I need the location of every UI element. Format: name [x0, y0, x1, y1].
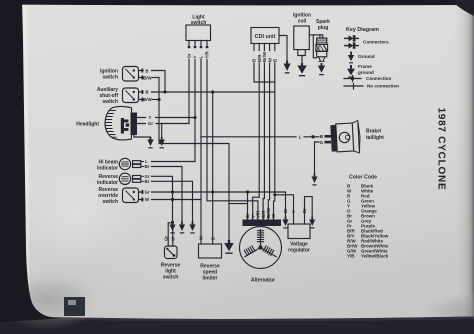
svg-text:Y: Y: [193, 56, 198, 59]
svg-text:1987 CYCLONE: 1987 CYCLONE: [436, 108, 447, 191]
light switch pin stubs: [189, 41, 207, 47]
ground under Gr bus end: [282, 217, 288, 229]
ground branch vertical: [172, 192, 174, 223]
regulator pin names: [291, 208, 307, 213]
speed limiter pin names: [199, 235, 216, 240]
junction W wire crossing: [171, 198, 174, 201]
ignition switch SW2 body: [123, 67, 139, 82]
svg-text:indicator: indicator: [97, 180, 118, 186]
svg-text:B/W: B/W: [143, 97, 152, 102]
taillight wire names: [299, 134, 324, 145]
plug side strap wire: [313, 35, 316, 58]
spur pin name: [283, 208, 288, 213]
color code rows: [347, 184, 389, 259]
wire L to brake light: [201, 136, 319, 138]
reverse override switch SW4 body: [123, 188, 139, 203]
wire Br reverse indicator to ground: [152, 181, 193, 222]
right edge shadow: [452, 0, 474, 334]
reverse light switch lever: [166, 248, 175, 257]
ground arrow mid low: [179, 222, 185, 234]
reverse indicator wire names: [144, 174, 149, 184]
svg-text:Connectors: Connectors: [363, 40, 389, 45]
svg-text:Yellow/Black: Yellow/Black: [361, 254, 389, 259]
wire Br hi beam to ground: [152, 167, 183, 223]
aux switch stubs: [139, 92, 144, 100]
svg-text:coil: coil: [298, 19, 307, 25]
light switch SW1 body: [186, 25, 211, 41]
key ground symbol: [348, 52, 354, 64]
svg-text:Connection: Connection: [366, 76, 391, 81]
svg-text:Key Diagram: Key Diagram: [346, 27, 379, 33]
wire coil to spark plug: [309, 34, 321, 36]
wire branch to reverse speed limiter B pin: [212, 92, 214, 244]
wire Br pin vertical: [247, 192, 249, 221]
auxiliary shut-off switch SW3 body: [123, 88, 139, 103]
junction on B bus: [211, 90, 214, 93]
svg-text:switch: switch: [102, 99, 118, 105]
svg-text:L: L: [199, 56, 204, 59]
reverse light switch pin names: [163, 236, 175, 241]
svg-text:Headlight: Headlight: [76, 122, 99, 128]
key frame ground symbol: [347, 65, 355, 78]
reverse light switch pins: [168, 223, 173, 246]
wire Y/R long vertical from light switch: [207, 60, 258, 220]
aux switch contacts and lever: [133, 91, 135, 101]
svg-text:Br: Br: [145, 164, 150, 169]
brake light lower pin wire: [315, 142, 320, 175]
wire Gr override bus across: [152, 192, 286, 218]
svg-text:indicator: indicator: [97, 166, 118, 172]
wire Gr reverse indicator: [152, 176, 173, 192]
headlight ground wire left: [134, 135, 151, 140]
CDI pin B jumper strap: [254, 63, 275, 82]
svg-text:Y/R: Y/R: [205, 50, 210, 58]
wire B/W vertical down and across to frame ground: [159, 78, 229, 241]
svg-text:Y: Y: [149, 115, 152, 120]
svg-text:switch: switch: [163, 275, 179, 281]
svg-text:ground: ground: [358, 70, 374, 75]
ignition switch stubs: [139, 71, 144, 78]
key no-connection symbol: [344, 84, 363, 90]
override switch contacts and lever: [133, 191, 135, 201]
bottom-right dark corner: [414, 290, 474, 334]
junction B/W: [157, 98, 160, 101]
page left edge highlight: [22, 5, 30, 302]
svg-text:Gr: Gr: [144, 190, 149, 195]
svg-text:Color Code: Color Code: [349, 175, 377, 181]
brake light pin ends: [325, 135, 332, 143]
headlight connector block: [131, 113, 138, 136]
CDI unit U1 body: [251, 28, 279, 44]
light switch pin feet: [188, 46, 209, 48]
CDI wire Br/W to alternator B/R pin: [263, 63, 264, 220]
alternator pin names: [245, 207, 276, 218]
binder tab: [64, 297, 85, 316]
key connectors symbol: [344, 35, 359, 41]
key connection symbol: [344, 76, 361, 82]
aux switch wire names: [143, 90, 152, 103]
taillight flange: [352, 120, 361, 153]
page corner shadow: [0, 270, 100, 330]
svg-text:CDI unit: CDI unit: [255, 34, 276, 40]
svg-text:switch: switch: [191, 20, 207, 26]
alternator pin nubs: [248, 214, 274, 220]
svg-text:L: L: [299, 135, 302, 140]
headlight L1 shell: [105, 106, 132, 140]
alternator G1 stator: [240, 227, 282, 269]
wire B/W aux switch: [153, 99, 160, 101]
ignition coil T1 body: [294, 26, 310, 50]
svg-text:Y/B: Y/B: [347, 254, 355, 259]
svg-text:B: B: [273, 59, 278, 62]
bottom page edge line: [30, 317, 474, 322]
ignition coil bottom stubs: [298, 50, 306, 64]
CDI wire B right vertical to alternator W pin: [274, 63, 275, 220]
reverse light switch SW5 body: [165, 246, 178, 259]
voltage regulator U3 body: [288, 224, 310, 239]
ignition switch wire names: [143, 68, 152, 80]
svg-text:limiter: limiter: [202, 276, 217, 282]
CDI pin stubs: [254, 44, 275, 51]
hi beam indicator connector: [133, 161, 141, 164]
wire L hi beam: [152, 161, 196, 163]
junction B vertical / regulator Y: [273, 193, 276, 196]
svg-text:Gr: Gr: [148, 121, 153, 126]
headlight ground wire right: [161, 124, 163, 140]
page curl highlight: [5, 150, 145, 274]
svg-text:B: B: [320, 134, 323, 139]
svg-text:Alternator: Alternator: [251, 278, 275, 284]
svg-text:plug: plug: [318, 25, 329, 31]
svg-text:G: G: [320, 140, 324, 145]
svg-text:B: B: [211, 237, 216, 240]
svg-text:switch: switch: [102, 199, 118, 205]
light switch pin names: [187, 50, 210, 58]
junction Gr bus / ground branch: [171, 190, 174, 193]
ground below spark plug: [318, 63, 325, 75]
junction at reverse light switch pins: [171, 221, 174, 224]
wire frame-ground link to Br pin: [229, 203, 248, 205]
wire B aux switch bus: [152, 91, 275, 93]
wire B ignition switch: [152, 71, 166, 93]
svg-text:taillight: taillight: [366, 135, 384, 141]
svg-text:Br: Br: [302, 208, 307, 213]
svg-text:switch: switch: [102, 75, 118, 81]
hi beam indicator lamp L2: [119, 158, 130, 169]
ground arrow right low: [189, 222, 195, 234]
headlight bulb element: [121, 118, 129, 134]
svg-text:Gr: Gr: [163, 236, 168, 241]
ground right under headlight: [159, 137, 165, 148]
ground under brake light feed: [311, 174, 317, 186]
override wire names: [144, 190, 149, 203]
alternator connector block: [243, 220, 282, 227]
ground left under headlight: [147, 137, 153, 148]
left dark band: [0, 0, 60, 322]
top dark strip: [0, 0, 474, 5]
ignition switch contacts and lever: [133, 69, 135, 78]
svg-text:Brake/: Brake/: [366, 129, 382, 135]
wire L vertical from light switch: [200, 60, 202, 245]
reverse indicator lamp L3: [119, 173, 130, 184]
svg-text:Br: Br: [145, 179, 150, 184]
top-right dark corner: [455, 0, 474, 16]
big frame ground right of limiter: [224, 240, 234, 254]
svg-text:B: B: [145, 90, 148, 95]
regulator Br pin to ground: [305, 197, 313, 224]
junction ign B / aux B: [163, 90, 166, 93]
wire regulator Y pin up-left to B vertical: [275, 195, 294, 224]
brake/taillight lamp L4: [330, 120, 361, 154]
svg-text:Frame: Frame: [358, 64, 372, 69]
svg-text:Br: Br: [283, 208, 288, 213]
spark plug gap tick: [319, 60, 324, 62]
junction Gr bus / alternator Br: [246, 190, 249, 193]
svg-text:regulator: regulator: [288, 248, 310, 254]
lower-left page shading: [20, 150, 280, 325]
wire Gr from light switch to headlight: [188, 60, 190, 124]
headlight reflector hatching: [105, 111, 116, 138]
svg-text:Ground: Ground: [358, 54, 375, 59]
CDI pin names: [252, 51, 278, 62]
bottom dark area: [0, 317, 474, 334]
headlight wire names: [148, 115, 153, 126]
svg-text:No connection: No connection: [367, 84, 399, 89]
svg-text:Gr: Gr: [187, 53, 192, 58]
ground arrow left low: [169, 222, 175, 234]
reverse indicator connector: [133, 176, 141, 179]
junction Gr bus / limiter B: [211, 190, 214, 193]
hi beam wire names: [145, 159, 150, 169]
wire Y from light switch to headlight: [194, 60, 196, 162]
wire W override to speed limiter: [152, 199, 202, 201]
spark plug P1: [320, 35, 323, 38]
headlight wire stubs: [137, 118, 195, 124]
reverse speed limiter U2 body: [199, 244, 222, 258]
ground below CDI right wire: [284, 61, 291, 74]
svg-text:Y: Y: [291, 210, 296, 213]
ground right of regulator: [309, 217, 315, 229]
CDI wire W to alternator Br/W pin: [268, 63, 269, 220]
frame ground below ignition coil: [297, 63, 306, 76]
CDI wire B/R to alternator Y pin: [253, 63, 260, 220]
override switch stubs: [139, 192, 144, 200]
junction on L wire: [311, 135, 314, 138]
wire B/W ignition switch: [153, 77, 160, 79]
svg-text:B: B: [145, 68, 148, 73]
CDI right wire to ground: [279, 36, 287, 63]
svg-text:B/W: B/W: [143, 75, 152, 80]
